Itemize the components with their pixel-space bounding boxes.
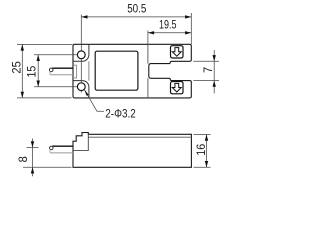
svg-text:7: 7 [201,67,215,73]
inner window rectangle [95,51,138,90]
dim 7 extension lines [193,60,219,62]
mounting hole (lower) [77,83,85,91]
dim 15 extension lines [34,54,85,56]
dim 25 extension lines [17,43,72,45]
19.5 arrows [148,31,154,34]
dim 15 line [37,55,39,87]
cable (side view) [52,145,73,147]
flange mid line [88,61,90,80]
50.5 arrows [81,15,87,18]
flange step line (fork section boundary) [147,44,149,98]
bottom edge extension for dim 8 [23,166,72,168]
side view internal top line [88,136,191,138]
sensor body outline (side view) [73,133,191,168]
dim 25 line [21,44,23,98]
cable (top view) [52,67,73,69]
dim 8 tick extension [27,147,39,149]
8 arrows (outside) [31,141,34,147]
dim 50.5 line [81,16,191,18]
svg-text:19.5: 19.5 [159,17,177,31]
svg-text:15: 15 [24,65,38,77]
dim 8 line [32,139,34,177]
optical axis marker (upper prong) [171,46,184,58]
7 arrows (outside) [213,55,216,61]
cable end curl (top view) [49,68,53,72]
side view end-cap boundary [73,134,88,150]
svg-text:25: 25 [10,61,24,74]
svg-text:50.5: 50.5 [127,1,146,15]
mounting tab (lower) [73,81,89,98]
arrowheads [21,15,216,173]
dim 7 line [213,50,215,94]
dim 19.5 extension line [147,31,149,45]
leader arrow [84,90,88,96]
leader line 2-phi3.2 [85,90,105,112]
25 arrows [21,44,24,50]
optical axis marker (lower prong) [171,82,184,94]
cable end curl (side view) [50,146,54,150]
svg-text:2-Φ3.2: 2-Φ3.2 [105,106,136,120]
dim 19.5 line [148,32,191,34]
15 arrows [37,55,40,61]
dim 50.5 extension lines [80,15,82,93]
mounting tab (upper) [73,44,89,61]
svg-text:8: 8 [16,156,30,162]
dim 16 extension lines [194,134,211,136]
svg-text:16: 16 [194,144,208,156]
cable bushing (top view) [73,65,77,78]
mounting hole (upper) [77,51,85,59]
sensor body outline (top view) [73,44,191,98]
16 arrows [205,135,208,141]
dim 16 line [206,135,208,168]
